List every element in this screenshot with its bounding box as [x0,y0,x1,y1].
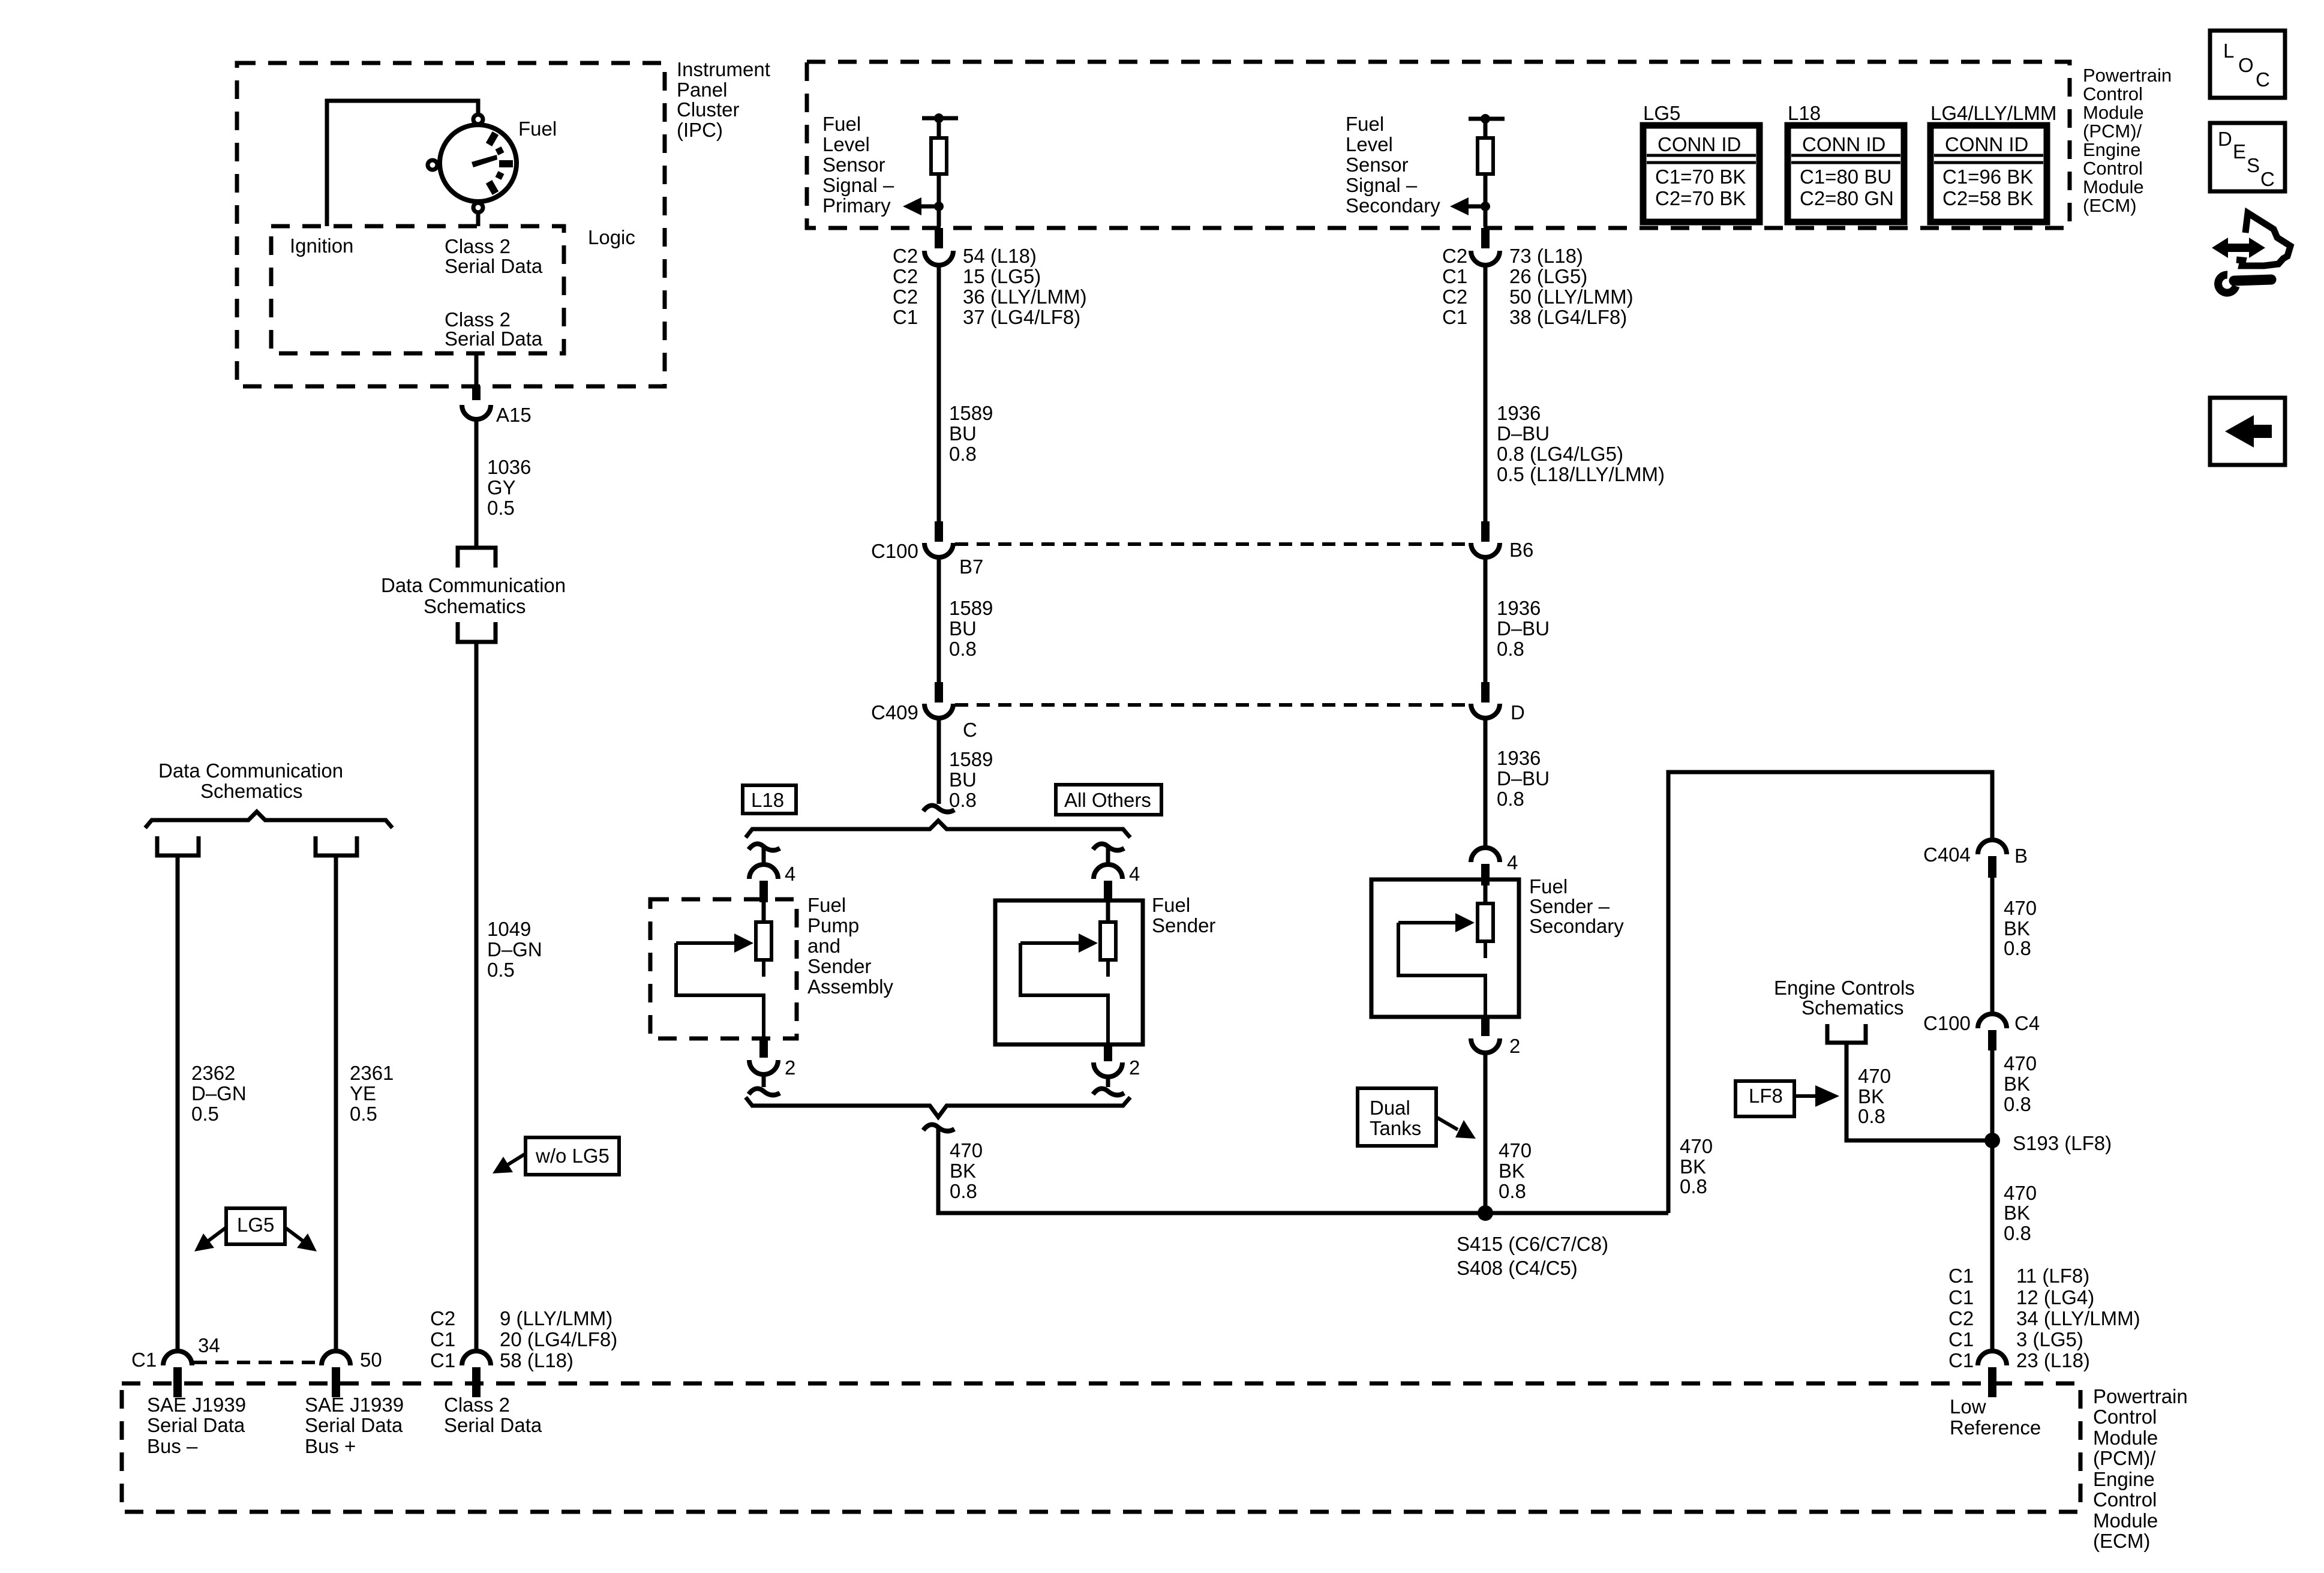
svg-text:1589: 1589 [949,597,993,619]
svg-text:S193 (LF8): S193 (LF8) [2013,1132,2112,1154]
connector B6 arc [1471,543,1500,557]
svg-text:C1: C1 [131,1349,157,1371]
svg-text:Serial Data: Serial Data [445,328,543,350]
Fuel Sender Secondary box [1371,879,1519,1017]
svg-text:Bus +: Bus + [305,1435,356,1457]
svg-text:4: 4 [785,863,795,885]
svg-text:12 (LG4): 12 (LG4) [2016,1286,2094,1308]
wire gauge top to ignition [327,101,478,226]
svg-text:C1=80 BU: C1=80 BU [1800,166,1891,188]
wire 1589 segment 1 [937,265,941,521]
svg-text:Dual: Dual [1370,1097,1410,1119]
svg-text:D–BU: D–BU [1497,617,1550,640]
svg-text:11 (LF8): 11 (LF8) [2016,1265,2089,1287]
signal arrow primary [920,205,939,209]
resistor R secondary [1478,138,1493,174]
node dot secondary signal [1481,202,1490,211]
svg-text:(PCM)/: (PCM)/ [2093,1447,2156,1469]
svg-text:50 (LLY/LMM): 50 (LLY/LMM) [1509,286,1634,308]
resistor R secondary top bar [1469,117,1505,121]
svg-text:Signal –: Signal – [1346,174,1418,196]
svg-text:1036: 1036 [487,456,531,478]
resistor open stub [1106,960,1110,977]
svg-text:54 (L18): 54 (L18) [963,245,1037,267]
splice clip All Others branch top [1093,844,1124,851]
LOC icon box [2210,31,2285,98]
svg-text:470: 470 [2004,897,2037,919]
svg-text:Control: Control [2093,1406,2157,1428]
gauge tick 1 [489,133,496,145]
svg-text:Control: Control [2083,158,2143,179]
connector C100 arc [924,543,953,557]
wire class 2 serial data down from logic box [475,353,479,386]
svg-text:0.8: 0.8 [2004,937,2031,959]
gauge needle [472,155,497,167]
LF8 tag box [1736,1081,1794,1116]
svg-text:2362: 2362 [191,1062,235,1084]
wire 1589 segment 2 [937,557,941,682]
dashed line C100 to B6 [955,542,1469,546]
wire [762,1074,766,1087]
gauge tick 2 [497,149,503,152]
svg-text:S415 (C6/C7/C8): S415 (C6/C7/C8) [1457,1233,1608,1255]
wiper arrow secondary [1398,921,1459,924]
svg-text:Sensor: Sensor [1346,154,1409,176]
resistor R primary top bar [922,116,958,121]
resistor open stub [1484,941,1487,958]
svg-text:All Others: All Others [1064,789,1151,811]
svg-text:Fuel: Fuel [822,113,861,135]
svg-text:BK: BK [1858,1085,1884,1107]
connector C404 stub [1988,856,1996,878]
svg-text:L18: L18 [751,789,784,811]
LG5 tag box [226,1208,285,1244]
svg-text:2: 2 [1509,1035,1520,1057]
svg-text:0.8: 0.8 [950,1180,977,1202]
svg-text:470: 470 [2004,1182,2037,1204]
svg-text:CONN ID: CONN ID [1802,133,1885,155]
svg-text:0.8: 0.8 [1680,1175,1707,1197]
svg-text:Panel: Panel [677,79,727,101]
svg-text:Fuel: Fuel [1529,875,1568,897]
connector D arc [1471,704,1500,718]
node dot secondary top [1481,114,1490,124]
svg-text:C2: C2 [1442,286,1467,308]
connector 4 arc (sender) [1094,864,1122,879]
Left data communication buses [131,760,617,1397]
connector 2 stub secondary [1481,1017,1490,1036]
Fuel Level Sensor Signal Secondary circuit [1346,113,1665,1279]
svg-text:D–BU: D–BU [1497,767,1550,789]
connector stub C2 secondary [1481,228,1490,248]
connector C409 arc [924,704,953,718]
svg-text:34: 34 [198,1334,220,1356]
svg-text:26 (LG5): 26 (LG5) [1509,265,1587,287]
dashed line between bus connectors [194,1361,320,1364]
svg-text:Sender: Sender [807,955,871,977]
svg-text:0.8: 0.8 [949,638,977,660]
svg-text:Serial Data: Serial Data [147,1414,245,1436]
svg-text:C: C [963,719,977,741]
wire 470 below sender [1484,1053,1488,1213]
svg-text:C1: C1 [893,306,918,328]
svg-text:Module: Module [2083,102,2144,123]
wire 2361 [334,855,338,1351]
svg-text:Signal –: Signal – [822,174,894,196]
gauge tick 4 [497,174,503,177]
svg-text:BU: BU [949,769,977,791]
svg-text:L18: L18 [1788,102,1821,124]
svg-text:(IPC): (IPC) [677,119,723,141]
svg-text:0.8: 0.8 [949,789,977,811]
svg-text:S: S [2247,154,2260,176]
svg-text:470: 470 [1858,1065,1891,1087]
svg-text:LG4/LLY/LMM: LG4/LLY/LMM [1930,102,2056,124]
wire [1484,174,1488,226]
wire [937,174,941,226]
svg-text:Fuel: Fuel [1152,894,1190,916]
svg-text:w/o LG5: w/o LG5 [535,1145,609,1167]
connector 2 stub (pump) [759,1038,768,1058]
brace data communication [145,812,392,828]
wire 1036 [475,419,479,548]
wire 470 segment [1990,878,1995,1014]
svg-text:C2: C2 [893,286,918,308]
All Others tag box [1056,785,1161,815]
off-page bracket SAE bus minus [157,836,199,855]
svg-text:1936: 1936 [1497,747,1541,769]
wire from S415 up to C404 run [1668,772,1992,1213]
wire into sender [1484,879,1488,903]
connector D stub [1481,682,1490,703]
svg-text:CONN ID: CONN ID [1945,133,2028,155]
wiper arrow (sender) [1020,941,1082,945]
svg-text:C1: C1 [1948,1286,1974,1308]
svg-text:Pump: Pump [807,914,859,936]
svg-text:0.5: 0.5 [487,959,515,981]
connector C404 arc [1978,840,2007,854]
connector 4 arc secondary sender [1471,848,1500,862]
svg-text:Instrument: Instrument [677,58,770,80]
svg-text:A15: A15 [496,404,532,426]
svg-text:Module: Module [2083,176,2144,197]
wire 470 segment [1990,1050,1995,1351]
svg-text:C1: C1 [1442,306,1467,328]
connector C100 stub [935,521,943,542]
svg-text:C1=70 BK: C1=70 BK [1655,166,1746,188]
svg-text:(ECM): (ECM) [2093,1530,2150,1552]
svg-text:(ECM): (ECM) [2083,195,2137,216]
connector C100 C4 arc [1978,1014,2007,1028]
Right side low reference network [1668,772,2140,1439]
wiper loop wire [1398,923,1485,1017]
Dual Tanks tag box [1358,1088,1436,1146]
Logic dashed box [271,226,564,353]
connector C100 stub [1988,1030,1996,1050]
svg-text:LF8: LF8 [1749,1085,1783,1107]
resistor fuel sender secondary [1478,903,1493,941]
svg-text:C1: C1 [1948,1328,1974,1350]
connector stub low reference [1988,1367,1996,1397]
wire [937,118,941,138]
connector 2 arc secondary [1471,1038,1500,1053]
wire [1106,846,1110,864]
svg-text:Schematics: Schematics [1801,996,1904,1019]
splice S415 dot [1478,1205,1493,1221]
svg-text:0.5: 0.5 [487,497,515,519]
gauge terminal top [473,115,483,124]
svg-text:470: 470 [1499,1139,1532,1161]
connector stub C2 primary [935,228,943,248]
svg-text:Serial Data: Serial Data [305,1414,403,1436]
svg-text:BU: BU [949,617,977,640]
svg-text:2: 2 [785,1056,795,1079]
svg-text:Schematics: Schematics [424,595,526,617]
Right margin icons [2210,31,2290,465]
svg-text:C1: C1 [1442,265,1467,287]
connector arc bus minus [163,1351,192,1365]
splice clip top of 470 wire [923,1125,954,1131]
svg-text:15 (LG5): 15 (LG5) [963,265,1041,287]
svg-text:0.8: 0.8 [949,443,977,465]
wrench icon [2218,275,2236,293]
connector 4 stub [1481,864,1490,885]
svg-text:C2=58 BK: C2=58 BK [1942,187,2033,209]
brace bottom (merge) [746,1097,1130,1117]
wire 2362 [176,855,180,1351]
connector arc low reference [1978,1351,2007,1365]
svg-text:BK: BK [1680,1155,1706,1178]
svg-text:37 (LG4/LF8): 37 (LG4/LF8) [963,306,1080,328]
PCM bottom dashed box [122,1383,2080,1512]
svg-text:B7: B7 [959,556,983,578]
svg-text:C2=80 GN: C2=80 GN [1800,187,1894,209]
wire 1936 segment 1 [1484,265,1488,521]
svg-text:C2: C2 [893,245,918,267]
resistor fuel sender [1100,922,1116,960]
svg-text:B: B [2014,845,2028,867]
connector 2 arc (pump) [749,1060,778,1074]
wire gauge bottom [476,212,481,226]
svg-text:C2=70 BK: C2=70 BK [1655,187,1746,209]
svg-text:0.8 (LG4/LG5): 0.8 (LG4/LG5) [1497,443,1623,465]
svg-text:Powertrain: Powertrain [2093,1385,2188,1407]
svg-text:Serial Data: Serial Data [445,255,543,277]
svg-text:Control: Control [2093,1488,2157,1511]
IPC dashed box [237,63,665,386]
svg-text:4: 4 [1129,863,1140,885]
svg-text:0.8: 0.8 [1858,1105,1885,1127]
LG5 arrow right [285,1227,304,1242]
wire 1049 from off-page ref [475,642,479,1351]
svg-text:Engine: Engine [2093,1468,2155,1490]
connector stub bus plus [332,1367,340,1397]
svg-text:Class 2: Class 2 [445,235,511,257]
svg-text:0.8: 0.8 [1497,638,1524,660]
svg-text:Ignition: Ignition [290,235,353,257]
off-page bracket Engine Controls [1827,1024,1866,1043]
svg-text:C404: C404 [1923,843,1971,866]
svg-text:1936: 1936 [1497,402,1541,424]
svg-text:C2: C2 [430,1307,455,1329]
svg-text:36 (LLY/LMM): 36 (LLY/LMM) [963,286,1087,308]
svg-text:Module: Module [2093,1427,2158,1449]
svg-text:Serial Data: Serial Data [444,1414,542,1436]
svg-text:C1=96 BK: C1=96 BK [1942,166,2033,188]
wire [1106,1077,1110,1087]
svg-text:C1: C1 [1948,1349,1974,1371]
svg-text:Cluster: Cluster [677,98,740,121]
svg-text:and: and [807,935,840,957]
svg-text:470: 470 [2004,1052,2037,1074]
svg-text:O: O [2238,54,2254,76]
connector C409 stub [935,682,943,703]
wire into pump [762,899,766,922]
connector A15 arc [462,405,491,419]
connector stub bus minus [173,1367,182,1397]
svg-text:BK: BK [2004,1073,2030,1095]
L18 tag box [743,785,796,813]
svg-text:Secondary: Secondary [1529,915,1624,937]
svg-text:0.8: 0.8 [1499,1180,1526,1202]
Bottom PCM/ECM box [122,1383,2188,1552]
connector B6 stub [1481,521,1490,542]
svg-text:E: E [2233,140,2246,163]
splice S193 dot [1984,1133,2000,1148]
svg-text:S408 (C4/C5): S408 (C4/C5) [1457,1257,1578,1279]
svg-text:Powertrain: Powertrain [2083,65,2172,86]
back arrow icon box [2210,398,2285,465]
svg-text:Engine Controls: Engine Controls [1774,977,1915,999]
svg-text:20 (LG4/LF8): 20 (LG4/LF8) [500,1328,617,1350]
LF8 arrow [1794,1094,1818,1098]
wire 1936 segment 2 [1484,557,1488,682]
svg-text:1936: 1936 [1497,597,1541,619]
svg-text:LG5: LG5 [237,1214,274,1236]
svg-text:0.5: 0.5 [350,1103,377,1125]
w/o LG5 arrow [508,1154,526,1164]
node dot primary top [934,113,944,123]
svg-text:58 (L18): 58 (L18) [500,1349,574,1371]
svg-text:C4: C4 [2014,1012,2040,1034]
Fuel Level Sensor Signal Primary circuit [743,113,1469,837]
svg-text:SAE J1939: SAE J1939 [147,1394,246,1416]
svg-text:Fuel: Fuel [807,894,846,916]
resistor open stub [762,960,765,977]
resistor R primary [931,138,947,174]
svg-text:Reference: Reference [1950,1416,2041,1439]
svg-text:C2: C2 [1948,1307,1974,1329]
gauge tick 5 [489,182,496,193]
svg-text:Schematics: Schematics [200,780,303,802]
brace top (splits to L18 / All Others) [746,821,1130,837]
connector arc C2 secondary [1471,251,1500,265]
svg-text:Sensor: Sensor [822,154,885,176]
svg-text:GY: GY [487,476,516,499]
svg-text:50: 50 [360,1349,382,1371]
svg-text:SAE J1939: SAE J1939 [305,1394,404,1416]
node dot primary signal [934,202,944,211]
svg-text:0.5: 0.5 [191,1103,219,1125]
svg-text:B6: B6 [1509,539,1533,561]
svg-text:Fuel: Fuel [1346,113,1384,135]
splice clip below pump [749,1089,780,1095]
svg-text:Bus –: Bus – [147,1435,198,1457]
wiper loop wire (sender) [1020,943,1108,1044]
svg-text:Low: Low [1950,1395,1986,1418]
svg-text:BK: BK [950,1160,976,1182]
gauge terminal left [428,160,437,170]
wire 1936 segment 3 [1484,718,1488,847]
svg-text:C2: C2 [893,265,918,287]
svg-text:Primary: Primary [822,194,891,217]
svg-text:Class 2: Class 2 [444,1394,510,1416]
svg-text:2361: 2361 [350,1062,394,1084]
Fuel Sender box [995,900,1143,1044]
wiper loop wire (pump) [676,943,764,1038]
off-page bracket SAE bus plus [316,836,357,855]
svg-text:C100: C100 [871,540,918,562]
svg-text:C: C [2256,68,2270,91]
svg-text:BU: BU [949,422,977,445]
svg-text:0.8: 0.8 [1497,788,1524,810]
svg-text:BK: BK [1499,1160,1525,1182]
svg-text:C: C [2260,168,2275,190]
svg-text:Control: Control [2083,83,2143,104]
svg-text:Secondary: Secondary [1346,194,1440,217]
off-page reference Data Communication Schematics (top) [458,548,496,568]
adjust icon (double arrow with part outline) [2212,238,2265,258]
svg-text:D–GN: D–GN [191,1082,247,1104]
svg-text:4: 4 [1507,851,1518,873]
svg-text:D: D [2218,128,2232,150]
connector 2 arc (sender) [1094,1062,1122,1077]
svg-text:0.8: 0.8 [2004,1222,2031,1244]
svg-text:38 (LG4/LF8): 38 (LG4/LF8) [1509,306,1627,328]
svg-text:Module: Module [2093,1509,2158,1532]
connector stub class 2 [472,1367,481,1397]
svg-text:Sender: Sender [1152,914,1215,936]
Fuel pump and sender branches under brace [650,844,1668,1213]
svg-text:23 (L18): 23 (L18) [2016,1349,2090,1371]
svg-text:Data Communication: Data Communication [381,574,566,596]
svg-text:1589: 1589 [949,748,993,770]
Fuel Pump and Sender Assembly dashed box [650,899,797,1038]
splice clip below sender [1093,1089,1124,1095]
connector 4 stub (sender) [1104,881,1112,902]
svg-text:D–BU: D–BU [1497,422,1550,445]
svg-text:C2: C2 [1442,245,1467,267]
dashed line C409 to D [955,703,1469,707]
svg-text:1589: 1589 [949,402,993,424]
svg-text:Data Communication: Data Communication [158,760,343,782]
svg-text:Fuel: Fuel [518,118,557,140]
svg-text:C409: C409 [871,701,918,724]
w/o LG5 tag box [526,1137,619,1175]
svg-text:Logic: Logic [588,226,635,248]
connector arc C2 primary [924,251,953,265]
svg-text:Level: Level [1346,133,1393,155]
svg-text:BK: BK [2004,1202,2030,1224]
signal arrow secondary [1467,205,1485,209]
svg-text:470: 470 [950,1139,983,1161]
svg-text:CONN ID: CONN ID [1658,133,1741,155]
svg-text:Level: Level [822,133,870,155]
Dual Tanks arrow [1436,1117,1458,1130]
svg-text:9 (LLY/LMM): 9 (LLY/LMM) [500,1307,612,1329]
svg-text:1049: 1049 [487,918,531,940]
connector 4 arc (pump) [749,864,778,879]
